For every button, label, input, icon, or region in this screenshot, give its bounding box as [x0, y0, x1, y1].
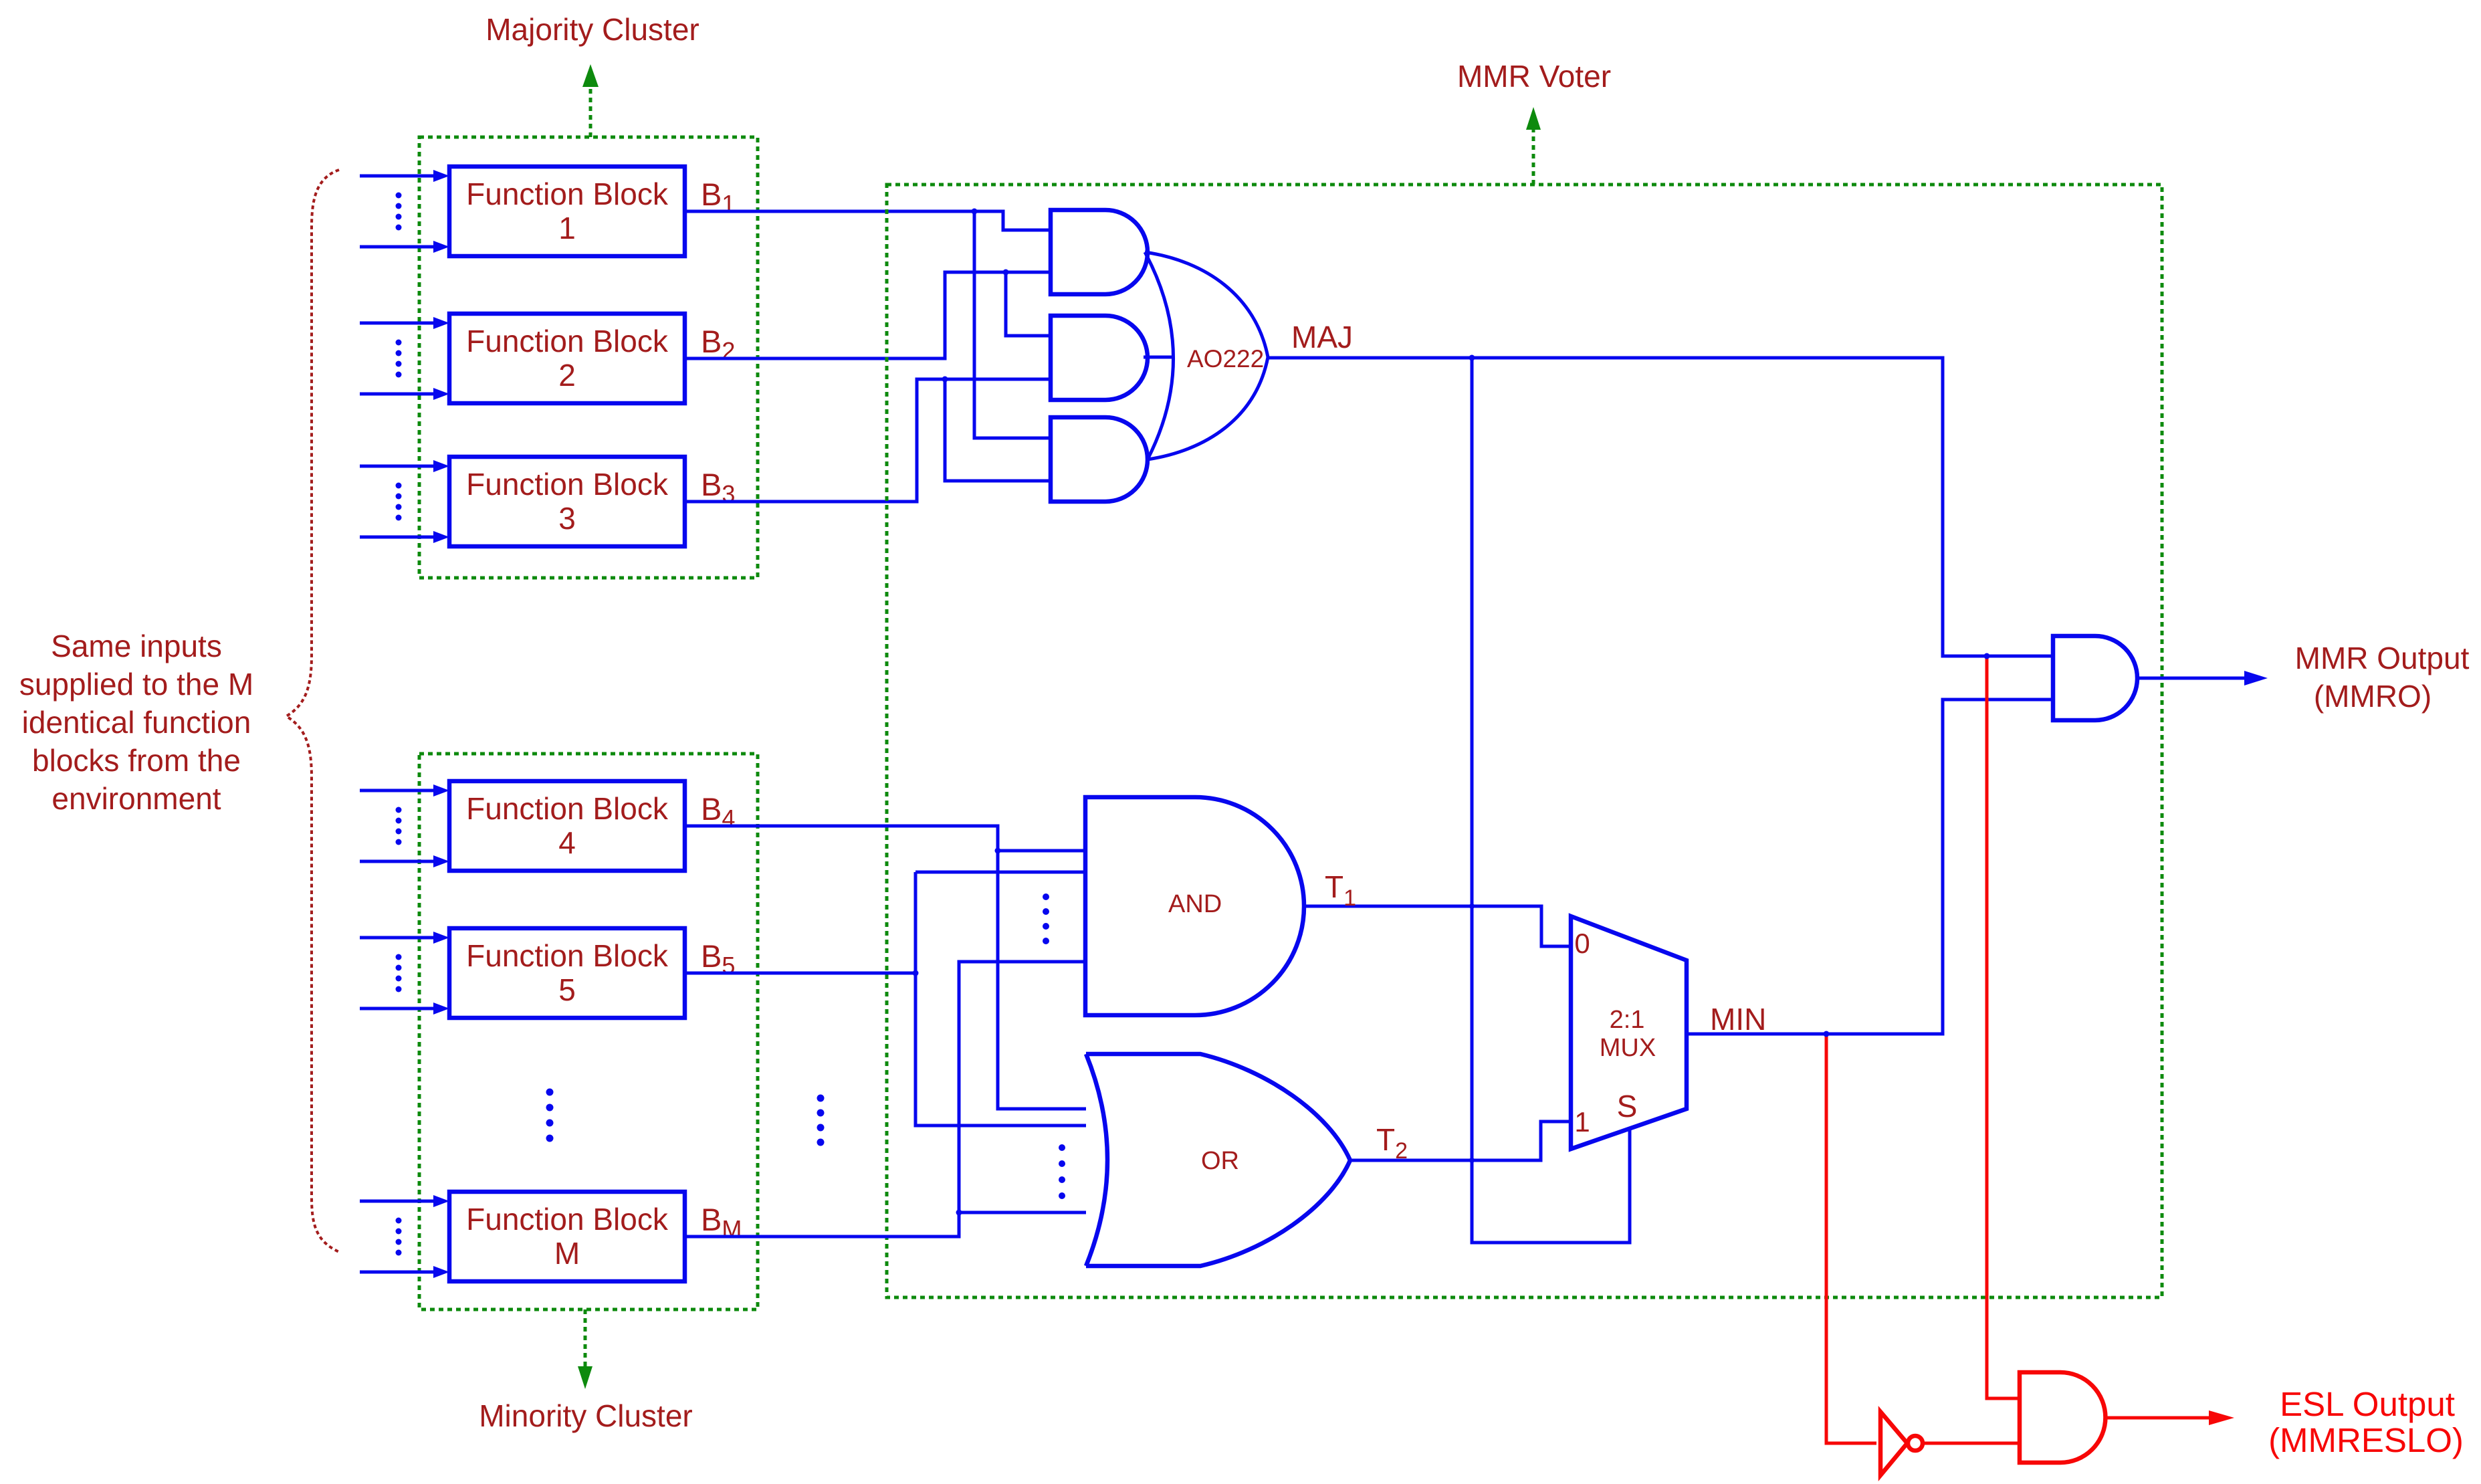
svg-text:1: 1 [558, 211, 576, 245]
function block 4 [449, 781, 685, 871]
svg-text:Function Block: Function Block [466, 938, 669, 973]
junction MIN tap [1824, 1031, 1830, 1037]
svg-text:environment: environment [51, 781, 221, 816]
input arrows FBM [360, 1195, 449, 1278]
inverter [1880, 1412, 1923, 1475]
function block 3 [449, 457, 685, 546]
svg-text:ESL Output: ESL Output [2280, 1385, 2455, 1423]
svg-text:2:1: 2:1 [1610, 1006, 1645, 1034]
junction dot on T1 crossing [1469, 904, 1475, 909]
svg-text:MMR Voter: MMR Voter [1457, 59, 1611, 94]
wire T1 to MUX input 0 [1304, 906, 1571, 946]
input arrows FB5 [360, 932, 449, 1015]
svg-text:1: 1 [1574, 1106, 1590, 1138]
svg-text:(MMRESLO): (MMRESLO) [2268, 1421, 2464, 1459]
svg-text:Function Block: Function Block [466, 1202, 669, 1237]
dots left of OR gate [817, 1095, 825, 1146]
wire B3 branch to AND3 input2 [945, 379, 1051, 481]
wire B3 to AND2 input2 [685, 379, 1051, 502]
wire BM to AND input3 and OR input3 [685, 962, 1085, 1237]
wire MAJ down to MUX select [1472, 358, 1630, 1243]
left brace [286, 170, 339, 1252]
green arrow to Minority Cluster label [578, 1309, 592, 1389]
svg-text:AO222: AO222 [1187, 345, 1264, 373]
svg-text:M: M [554, 1236, 580, 1271]
svg-text:Function Block: Function Block [466, 791, 669, 826]
svg-text:identical function: identical function [22, 705, 251, 740]
function block 1 [449, 167, 685, 256]
red wire MAJ tap to ESL AND input1 [1987, 656, 2020, 1398]
svg-text:Same inputs: Same inputs [51, 629, 222, 663]
junction B2 branch [1003, 270, 1009, 276]
dots AND inputs [1043, 893, 1049, 944]
junction dot on T2 crossing [1469, 1158, 1475, 1163]
junction BM branch [956, 1210, 962, 1216]
red wire MIN tap to inverter [1826, 1034, 1876, 1443]
left text: Same inputs supplied to the M identical function blocks from the environment [19, 629, 253, 816]
svg-text:3: 3 [558, 501, 576, 536]
AND gate 3 of AO222 [1051, 417, 1148, 502]
wire inverter to ESL AND input2 [1923, 1442, 2020, 1445]
wire B2 to AND1 input2 [685, 272, 1051, 358]
svg-text:(MMRO): (MMRO) [2314, 679, 2432, 714]
junction MAJ tap [1984, 653, 1990, 659]
function block 5 [449, 928, 685, 1018]
green arrow to MMR Voter label [1526, 107, 1541, 185]
wire B1 branch to AND3 input1 [974, 211, 1051, 438]
wire MIN to MMRO AND input2 [1687, 700, 2053, 1034]
function block 2 [449, 314, 685, 403]
wire MAJ to MMRO AND input1 [1268, 358, 2053, 656]
svg-text:Function Block: Function Block [466, 324, 669, 358]
function block M [449, 1192, 685, 1281]
wire T2 to MUX input 1 [1350, 1122, 1571, 1160]
wire AND2 output to OR back [1144, 356, 1172, 359]
junction B4 branch [995, 848, 1001, 854]
input arrows FB1 [360, 170, 449, 253]
junction B1 branch [972, 209, 978, 215]
AND gate 1 of AO222 [1051, 210, 1148, 294]
dots OR inputs [1059, 1144, 1065, 1199]
junction B3 branch [942, 377, 948, 383]
wire B2 branch to AND2 input1 [1006, 272, 1051, 336]
MMR Voter dashed box [887, 185, 2162, 1297]
svg-text:OR: OR [1201, 1147, 1239, 1175]
wire B1 to AND1 input1 [685, 211, 1051, 230]
ESL AND gate [2020, 1372, 2105, 1463]
OR gate of AO222 [1145, 252, 1268, 459]
AND gate (minority) [1085, 797, 1304, 1015]
junction MAJ to select vertical [1469, 355, 1475, 361]
ESL output arrow [2106, 1410, 2234, 1425]
majority cluster dashed box [419, 137, 758, 578]
input arrows FB4 [360, 784, 449, 867]
minority cluster dashed box [419, 754, 758, 1309]
OR gate (minority) [1086, 1054, 1350, 1266]
svg-text:MMR Output: MMR Output [2295, 641, 2470, 675]
svg-text:Majority Cluster: Majority Cluster [486, 12, 699, 47]
AND gate 2 of AO222 [1051, 316, 1148, 400]
svg-text:MIN: MIN [1710, 1002, 1766, 1037]
svg-text:0: 0 [1574, 928, 1590, 959]
svg-text:4: 4 [558, 825, 576, 860]
input arrows FB3 [360, 460, 449, 543]
wire B5 to AND input2 and OR input2 [685, 972, 915, 975]
junction B5 [913, 970, 919, 976]
svg-text:AND: AND [1168, 890, 1222, 918]
svg-text:Function Block: Function Block [466, 177, 669, 211]
MMRO output arrow [2137, 671, 2268, 685]
dots between FB5 and FBM [546, 1089, 554, 1142]
svg-text:supplied to the M: supplied to the M [19, 667, 253, 702]
wire B4 to AND input1 and OR input1 [685, 826, 1110, 1109]
2:1 MUX [1571, 916, 1687, 1149]
svg-text:2: 2 [558, 358, 576, 393]
svg-text:MUX: MUX [1600, 1034, 1656, 1062]
svg-text:S: S [1617, 1089, 1638, 1124]
svg-text:Minority Cluster: Minority Cluster [479, 1398, 693, 1433]
input arrows FB2 [360, 317, 449, 400]
svg-text:MAJ: MAJ [1291, 320, 1353, 354]
svg-text:blocks from the: blocks from the [32, 743, 241, 778]
svg-text:Function Block: Function Block [466, 467, 669, 502]
green arrow to Majority Cluster label [582, 64, 599, 137]
svg-text:5: 5 [558, 972, 576, 1007]
MMRO AND gate [2053, 636, 2137, 720]
